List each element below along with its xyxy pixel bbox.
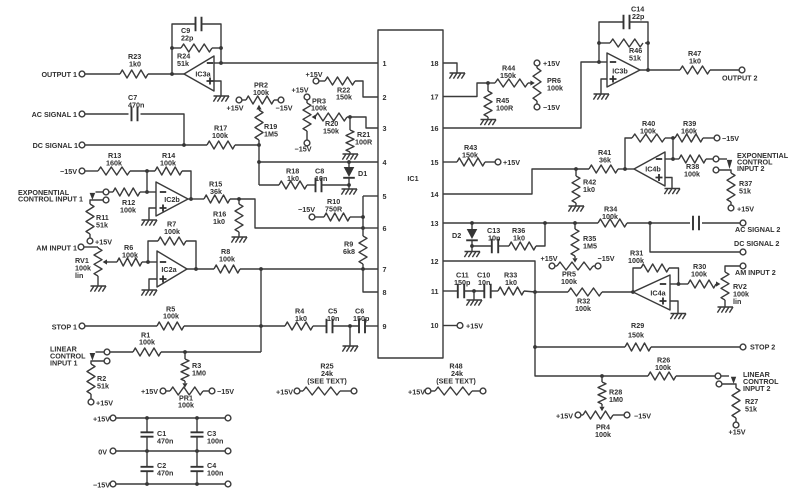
wire — [362, 196, 364, 228]
op-amp IC2b — [156, 182, 188, 216]
svg-text:(SEE TEXT): (SEE TEXT) — [436, 377, 476, 386]
wire — [130, 170, 155, 172]
terminal AC SIGNAL 1 — [32, 110, 85, 119]
terminal +15V — [534, 59, 560, 68]
resistor R4 — [285, 307, 313, 331]
terminal +15V — [141, 387, 170, 396]
wire — [188, 198, 204, 200]
svg-text:100k: 100k — [628, 256, 644, 265]
wire — [602, 291, 633, 293]
svg-text:51k: 51k — [177, 59, 189, 68]
wire — [350, 216, 363, 218]
resistor R28 — [598, 376, 623, 404]
resistor R8 — [214, 247, 240, 273]
wire — [85, 144, 207, 146]
node — [146, 260, 150, 264]
svg-text:1k0: 1k0 — [505, 278, 517, 287]
svg-text:100k: 100k — [253, 88, 269, 97]
resistor R31 — [628, 249, 669, 273]
terminal -15V — [593, 254, 615, 269]
resistor R20 — [315, 113, 347, 136]
wire — [141, 114, 185, 145]
svg-text:OUTPUT 2: OUTPUT 2 — [722, 74, 758, 83]
svg-text:IC2a: IC2a — [161, 265, 177, 274]
node — [671, 136, 675, 140]
svg-text:−15V: −15V — [298, 205, 315, 214]
wire — [149, 279, 157, 290]
node IC4b output — [623, 167, 627, 171]
jack switch arrow — [731, 377, 736, 384]
ground — [670, 314, 686, 320]
svg-text:1M0: 1M0 — [609, 395, 623, 404]
resistor R16 — [213, 199, 243, 232]
node — [145, 416, 199, 486]
svg-text:6: 6 — [383, 224, 387, 233]
svg-text:−15V: −15V — [598, 254, 615, 263]
wire — [363, 269, 378, 292]
wire — [186, 241, 196, 269]
resistor R22 — [325, 77, 355, 102]
svg-text:160k: 160k — [106, 159, 122, 168]
svg-text:+15V: +15V — [737, 205, 754, 214]
wire — [362, 264, 364, 269]
capacitor C6 — [353, 307, 370, 334]
terminal linear input 1 ring — [91, 358, 110, 364]
resistor R5 — [157, 305, 184, 331]
terminal +15V — [541, 254, 558, 269]
capacitor C2 — [141, 451, 174, 484]
node — [259, 324, 263, 328]
svg-text:100n: 100n — [207, 437, 223, 446]
node — [597, 41, 601, 45]
terminal +15V — [306, 70, 326, 84]
wire — [651, 346, 740, 348]
ground — [449, 73, 465, 79]
svg-text:11: 11 — [431, 287, 439, 296]
capacitor C4 — [191, 451, 224, 484]
preset PR4 — [583, 404, 613, 439]
ground — [141, 290, 157, 296]
wire — [528, 82, 531, 84]
node — [533, 290, 537, 294]
svg-text:100k: 100k — [178, 401, 194, 410]
wire — [710, 69, 739, 71]
svg-text:1k0: 1k0 — [513, 234, 525, 243]
svg-text:14: 14 — [431, 190, 439, 199]
terminal -15V — [274, 97, 293, 112]
capacitor C14 — [624, 5, 645, 30]
svg-text:−15V: −15V — [722, 134, 739, 143]
svg-text:100k: 100k — [691, 270, 707, 279]
node IC3b inverting input — [597, 60, 601, 64]
node — [543, 221, 547, 225]
ground — [464, 252, 480, 258]
svg-text:CONTROL INPUT 1: CONTROL INPUT 1 — [18, 195, 83, 204]
resistor R37 — [727, 173, 752, 202]
wire — [640, 69, 680, 71]
terminal — [225, 415, 231, 421]
svg-text:IC1: IC1 — [407, 174, 418, 183]
terminal exp input 1 ring — [90, 197, 109, 204]
IC1 pin numbers — [383, 59, 439, 331]
resistor R39 — [675, 119, 703, 142]
node — [361, 215, 365, 219]
resistor R35 — [571, 223, 597, 256]
svg-text:INPUT 1: INPUT 1 — [50, 359, 78, 368]
wire stop2 row — [535, 346, 625, 348]
terminal DC SIGNAL 1 — [33, 141, 85, 150]
ground — [593, 94, 609, 100]
diode D2 — [452, 223, 478, 251]
wire pin4 line — [259, 161, 378, 163]
node — [170, 46, 174, 50]
svg-text:100k: 100k — [684, 170, 700, 179]
resistor R45 — [484, 83, 514, 117]
terminal AM INPUT 2 — [725, 263, 776, 277]
node — [347, 160, 351, 164]
ground — [342, 152, 358, 160]
svg-text:17: 17 — [431, 93, 439, 102]
svg-text:100k: 100k — [547, 84, 563, 93]
wire pin14 line — [443, 169, 589, 194]
svg-text:7: 7 — [383, 265, 387, 274]
terminal +15V — [485, 158, 520, 167]
potentiometer RV2 — [716, 269, 749, 306]
wire — [672, 138, 674, 159]
wire — [676, 375, 715, 377]
ground — [141, 220, 157, 226]
svg-text:100k: 100k — [655, 363, 671, 372]
resistor R2 — [87, 364, 109, 394]
svg-text:22p: 22p — [632, 12, 645, 21]
resistor R1 — [133, 331, 161, 357]
svg-text:1k0: 1k0 — [295, 314, 307, 323]
preset PR5 — [557, 256, 593, 286]
svg-text:100R: 100R — [355, 138, 373, 147]
wire — [599, 22, 624, 62]
terminal +15V rail — [93, 415, 225, 424]
terminal 0V rail — [98, 448, 225, 457]
wire — [172, 24, 196, 74]
terminal STOP 2 — [740, 343, 775, 352]
terminal linear input 1 tip — [96, 349, 110, 355]
terminal +15V — [408, 388, 435, 397]
wire — [147, 191, 156, 193]
svg-text:R29: R29 — [631, 321, 644, 330]
terminal -15V — [203, 387, 234, 396]
svg-text:4: 4 — [383, 158, 387, 167]
resistor R34 — [598, 205, 627, 228]
svg-text:+15V: +15V — [93, 415, 110, 424]
resistor R13 — [98, 151, 130, 175]
wire — [258, 140, 260, 185]
svg-text:150k: 150k — [500, 71, 516, 80]
wire — [633, 268, 641, 292]
node — [486, 81, 490, 85]
op-amp IC2a — [157, 251, 187, 287]
svg-text:−15V: −15V — [217, 387, 234, 396]
svg-text:150k: 150k — [628, 331, 644, 340]
resistor R41 — [589, 148, 618, 173]
wire — [650, 223, 740, 252]
resistor R21 — [346, 117, 373, 152]
wire pin16 line — [443, 62, 599, 128]
wire — [85, 113, 129, 115]
wire — [187, 268, 214, 270]
wire — [670, 283, 679, 285]
svg-text:100k: 100k — [160, 159, 176, 168]
resistor R18 — [259, 167, 307, 190]
terminal — [340, 388, 357, 394]
node — [600, 374, 604, 378]
ground — [341, 189, 357, 195]
capacitor C7 — [128, 93, 144, 121]
wire — [214, 62, 221, 64]
wire — [230, 199, 363, 228]
wire — [182, 171, 191, 199]
wire pin5 stub — [363, 195, 378, 197]
ground — [664, 189, 680, 195]
svg-text:100k: 100k — [561, 277, 577, 286]
node — [259, 267, 263, 271]
terminal AM INPUT 1 — [36, 244, 98, 253]
terminal +15V — [728, 202, 754, 214]
preset PR1 — [170, 381, 203, 410]
node — [648, 221, 652, 225]
terminal -15V — [295, 131, 312, 154]
resistor R3 — [181, 352, 206, 381]
wire pin6 stub — [363, 227, 378, 229]
wire pin13 line — [443, 222, 598, 224]
terminal — [225, 448, 231, 454]
svg-text:AM INPUT 2: AM INPUT 2 — [735, 268, 776, 277]
svg-text:1k0: 1k0 — [583, 185, 595, 194]
node — [145, 169, 149, 173]
svg-text:51k: 51k — [629, 54, 641, 63]
node — [182, 143, 186, 147]
svg-text:10: 10 — [431, 321, 439, 330]
svg-text:IC3b: IC3b — [612, 67, 628, 76]
wire — [625, 138, 632, 169]
node — [145, 190, 149, 194]
svg-text:0V: 0V — [98, 448, 107, 457]
wire — [214, 81, 221, 96]
terminal exp input 2 tip — [713, 156, 727, 162]
svg-text:+15V: +15V — [541, 254, 558, 263]
terminal OUTPUT 2 — [722, 67, 758, 82]
svg-text:100k: 100k — [139, 338, 155, 347]
node — [347, 183, 351, 187]
svg-text:15: 15 — [431, 158, 439, 167]
node IC3b output — [646, 68, 650, 72]
wire — [665, 178, 672, 189]
svg-text:1M5: 1M5 — [583, 242, 597, 251]
terminal +15V — [88, 394, 113, 408]
svg-text:DC SIGNAL 2: DC SIGNAL 2 — [734, 239, 779, 248]
wire pin7 line — [240, 268, 378, 270]
preset PR3 — [303, 97, 327, 132]
resistor R44 — [488, 64, 528, 88]
svg-text:150k: 150k — [462, 151, 478, 160]
terminal -15V — [703, 134, 739, 143]
resistor R9 — [343, 228, 367, 264]
resistor R47 — [680, 49, 710, 74]
resistor R32 — [568, 288, 602, 313]
svg-text:160k: 160k — [681, 127, 697, 136]
resistor R46 — [599, 39, 648, 63]
ground — [466, 291, 482, 306]
svg-text:+15V: +15V — [556, 412, 573, 421]
svg-text:100k: 100k — [311, 104, 327, 113]
wire pin1 line — [221, 62, 378, 64]
wire — [146, 171, 148, 192]
wire — [464, 290, 484, 292]
resistor R43 — [443, 143, 485, 166]
op-amp IC4a — [633, 275, 670, 310]
ground — [342, 326, 358, 352]
svg-text:+15V: +15V — [729, 428, 746, 437]
svg-text:51k: 51k — [739, 187, 751, 196]
svg-text:470n: 470n — [157, 469, 173, 478]
wire — [618, 168, 634, 170]
svg-text:12: 12 — [431, 257, 439, 266]
capacitor C9 — [181, 17, 202, 43]
capacitor C3 — [191, 418, 224, 451]
wire — [184, 325, 285, 327]
svg-text:1k0: 1k0 — [129, 60, 141, 69]
wire — [347, 117, 378, 128]
resistor R29 — [625, 321, 651, 351]
svg-text:+15V: +15V — [227, 104, 244, 113]
svg-text:1k0: 1k0 — [287, 174, 299, 183]
svg-text:100R: 100R — [496, 104, 514, 113]
jack switch arrow — [90, 353, 96, 361]
svg-text:+15V: +15V — [141, 387, 158, 396]
terminal — [472, 388, 486, 394]
terminal -15V rail — [93, 481, 225, 490]
terminal AC SIGNAL 2 — [735, 220, 780, 234]
svg-text:+15V: +15V — [96, 399, 113, 408]
svg-text:51k: 51k — [745, 405, 757, 414]
capacitor C13 — [472, 226, 500, 253]
label EXPONENTIAL CONTROL INPUT 2 — [737, 151, 789, 173]
node — [183, 350, 187, 354]
capacitor C1 — [141, 418, 174, 451]
resistor R23 — [120, 52, 148, 78]
node — [348, 324, 352, 328]
svg-text:10n: 10n — [478, 278, 490, 287]
svg-text:STOP 1: STOP 1 — [52, 323, 77, 332]
svg-text:100n: 100n — [207, 469, 223, 478]
wire — [148, 241, 158, 262]
resistor R11 — [86, 204, 109, 234]
svg-text:1M5: 1M5 — [264, 130, 278, 139]
node IC2a output — [194, 267, 198, 271]
svg-text:lin: lin — [75, 271, 83, 280]
svg-text:150p: 150p — [454, 278, 471, 287]
svg-text:10n: 10n — [315, 174, 327, 183]
capacitor C10 — [477, 271, 491, 299]
svg-text:3: 3 — [383, 124, 387, 133]
svg-text:2: 2 — [383, 93, 387, 102]
node — [573, 221, 577, 225]
svg-text:100k: 100k — [595, 430, 611, 439]
capacitor C5 — [313, 307, 339, 334]
resistor R33 — [491, 271, 524, 296]
svg-text:36k: 36k — [599, 156, 611, 165]
terminal +15V — [227, 97, 247, 112]
svg-text:−15V: −15V — [93, 481, 110, 490]
wire — [670, 301, 678, 314]
capacitor C8 — [307, 167, 327, 193]
svg-text:+15V: +15V — [292, 86, 309, 95]
wire — [161, 351, 261, 353]
label LINEAR CONTROL INPUT 1 — [50, 345, 86, 368]
svg-text:AC SIGNAL 2: AC SIGNAL 2 — [735, 225, 780, 234]
terminal OUTPUT 1 — [41, 70, 84, 79]
ground — [90, 276, 106, 292]
svg-text:AM INPUT 1: AM INPUT 1 — [36, 244, 77, 253]
node IC4a inverting input — [677, 282, 681, 286]
svg-text:lin: lin — [733, 297, 741, 306]
capacitor C11 — [443, 271, 471, 299]
node — [574, 167, 578, 171]
op-amp IC3a — [184, 56, 214, 91]
svg-text:100k: 100k — [164, 227, 180, 236]
terminal STOP 1 — [52, 323, 157, 332]
svg-text:1: 1 — [383, 59, 387, 68]
resistor R12 — [113, 188, 140, 215]
terminal +15V — [87, 234, 112, 247]
node — [533, 345, 537, 349]
svg-text:16: 16 — [431, 124, 439, 133]
svg-text:−15V: −15V — [276, 104, 293, 113]
svg-text:+15V: +15V — [543, 59, 560, 68]
svg-text:100k: 100k — [163, 312, 179, 321]
node IC3a inverting feedback junction — [170, 72, 174, 76]
svg-text:150k: 150k — [323, 127, 339, 136]
svg-text:10n: 10n — [488, 234, 500, 243]
ground — [568, 203, 584, 212]
svg-text:10n: 10n — [327, 314, 339, 323]
resistor R15 — [204, 180, 230, 204]
svg-text:1k0: 1k0 — [213, 217, 225, 226]
wire — [110, 351, 133, 353]
svg-text:100k: 100k — [640, 127, 656, 136]
wire — [85, 73, 120, 75]
resistor R25 — [303, 362, 347, 396]
terminal +15V — [729, 418, 746, 437]
wire — [212, 47, 221, 49]
resistor R36 — [498, 226, 536, 250]
svg-text:1M0: 1M0 — [192, 369, 206, 378]
wire — [524, 291, 535, 292]
terminal +15V pin10 — [443, 322, 483, 331]
svg-text:100k: 100k — [575, 304, 591, 313]
wire — [702, 222, 740, 224]
svg-text:13: 13 — [431, 219, 439, 228]
resistor R30 — [679, 262, 717, 288]
svg-text:OUTPUT 1: OUTPUT 1 — [41, 70, 77, 79]
resistor R38 — [673, 155, 706, 179]
ground — [717, 300, 733, 313]
svg-text:INPUT 2: INPUT 2 — [737, 164, 765, 173]
svg-text:18: 18 — [431, 59, 439, 68]
svg-text:+15V: +15V — [503, 158, 520, 167]
preset PR6 — [530, 68, 563, 101]
wire — [108, 261, 148, 263]
label EXPONENTIAL CONTROL INPUT 1 — [18, 188, 83, 204]
